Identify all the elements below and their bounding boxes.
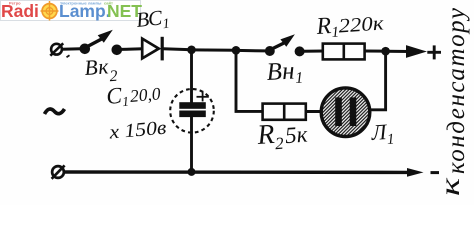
- wire R1 to node C: [365, 50, 386, 53]
- switch Vn1: [265, 34, 305, 56]
- switch Vk2: [80, 30, 123, 55]
- wire diode to node A: [163, 49, 192, 50]
- diode VS1: [142, 37, 162, 61]
- svg-text:к: к: [435, 177, 465, 196]
- capacitor branch wire lower: [190, 117, 193, 172]
- wire switch Vn1 to R1: [304, 50, 324, 53]
- resistor R2: [263, 104, 306, 120]
- wire switch to diode: [121, 47, 143, 51]
- AC tilde symbol: [45, 109, 65, 114]
- output arrow plus: [386, 47, 422, 56]
- node B junction: [232, 46, 241, 55]
- bottom dash: [431, 171, 440, 174]
- logo RadioLamp.NET: [0, 0, 142, 21]
- capacitor C1 branch wire upper: [190, 50, 193, 103]
- node C junction: [381, 47, 390, 56]
- lamp L1: [321, 88, 370, 137]
- wire terminal to switch Vk2: [62, 47, 81, 50]
- terminal bottom-left: [52, 165, 65, 178]
- wire node A to node B: [192, 48, 237, 51]
- resistor R1: [323, 44, 365, 60]
- wire R2 to lamp: [306, 110, 322, 113]
- wire node B to switch Vn1: [236, 49, 265, 53]
- capacitor C1: [170, 89, 214, 133]
- plus sign: [427, 45, 441, 59]
- bottom wire: [64, 170, 409, 174]
- wire node B down to R2: [236, 50, 263, 111]
- node D junction bottom: [188, 168, 196, 176]
- terminal top-left input: [50, 43, 63, 55]
- bottom arrow: [407, 168, 424, 177]
- wire node C down to lamp: [369, 51, 386, 110]
- tick mark: [67, 55, 70, 57]
- svg-text:220к: 220к: [338, 12, 385, 37]
- node A junction: [187, 46, 196, 55]
- svg-text:Radi: Radi: [1, 1, 39, 21]
- svg-text:Lamp.: Lamp.: [59, 1, 111, 21]
